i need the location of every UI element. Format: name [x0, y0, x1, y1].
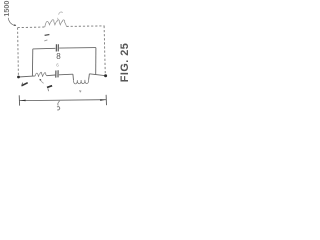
svg-text:8: 8 — [56, 52, 61, 61]
svg-text:FIG. 25: FIG. 25 — [119, 43, 131, 83]
svg-text:1500: 1500 — [2, 1, 11, 17]
